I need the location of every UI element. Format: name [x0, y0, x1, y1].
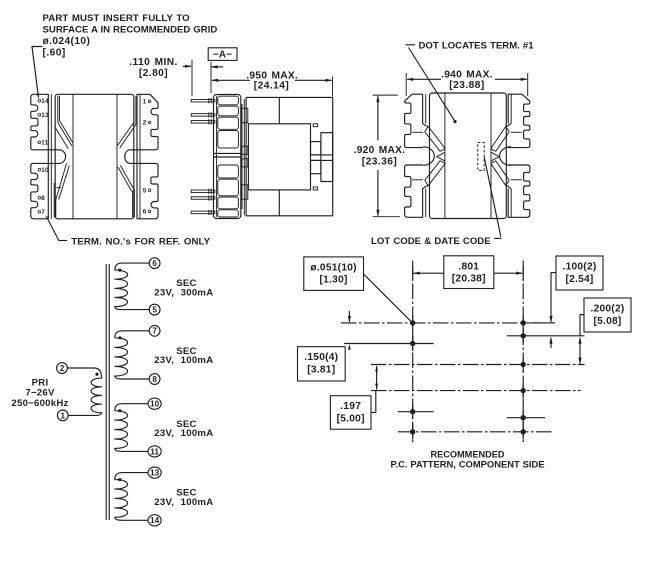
svg-text:2: 2 — [143, 120, 147, 127]
svg-text:.150(4): .150(4) — [304, 352, 338, 363]
svg-text:14: 14 — [150, 516, 160, 525]
svg-text:[20.38]: [20.38] — [452, 274, 486, 285]
svg-text:5: 5 — [152, 306, 157, 315]
svg-text:.940 MAX.: .940 MAX. — [441, 70, 493, 81]
svg-text:.801: .801 — [458, 261, 479, 272]
svg-text:250−600kHz: 250−600kHz — [11, 398, 68, 409]
svg-text:[5.00]: [5.00] — [337, 414, 365, 425]
svg-text:1: 1 — [61, 411, 66, 420]
svg-text:8: 8 — [152, 375, 157, 384]
svg-text:10: 10 — [150, 400, 160, 409]
svg-text:.197: .197 — [340, 401, 361, 412]
svg-text:23V, 100mA: 23V, 100mA — [154, 497, 213, 508]
svg-text:11: 11 — [41, 140, 48, 147]
svg-text:P.C. PATTERN, COMPONENT SIDE: P.C. PATTERN, COMPONENT SIDE — [390, 458, 544, 469]
svg-text:6: 6 — [152, 259, 157, 268]
svg-text:[2.54]: [2.54] — [565, 274, 593, 285]
svg-text:[.60]: [.60] — [43, 48, 66, 59]
svg-text:23V, 300mA: 23V, 300mA — [154, 288, 213, 299]
svg-text:8: 8 — [41, 195, 45, 202]
svg-text:DOT LOCATES TERM. #1: DOT LOCATES TERM. #1 — [419, 41, 535, 52]
svg-text:PART MUST INSERT FULLY TO: PART MUST INSERT FULLY TO — [43, 13, 191, 24]
svg-text:[2.80]: [2.80] — [139, 68, 168, 79]
svg-text:ø.024(10): ø.024(10) — [43, 36, 91, 47]
svg-text:.920 MAX.: .920 MAX. — [354, 145, 406, 156]
svg-text:LOT CODE & DATE CODE: LOT CODE & DATE CODE — [371, 236, 491, 247]
svg-text:11: 11 — [150, 447, 159, 456]
svg-text:[24.14]: [24.14] — [254, 80, 289, 91]
svg-text:10: 10 — [41, 167, 49, 174]
svg-text:13: 13 — [41, 112, 49, 119]
svg-text:[1.30]: [1.30] — [320, 275, 348, 286]
svg-text:14: 14 — [41, 98, 49, 105]
svg-text:.100(2): .100(2) — [562, 262, 596, 273]
svg-text:TERM. NO.'s FOR REF. ONLY: TERM. NO.'s FOR REF. ONLY — [71, 236, 210, 247]
svg-text:[23.36]: [23.36] — [362, 157, 397, 168]
svg-text:23V, 100mA: 23V, 100mA — [154, 355, 213, 366]
svg-text:SURFACE A IN RECOMMENDED GRID: SURFACE A IN RECOMMENDED GRID — [43, 24, 218, 35]
svg-text:[23.88]: [23.88] — [449, 80, 484, 91]
svg-text:[3.81]: [3.81] — [307, 365, 335, 376]
svg-text:7: 7 — [152, 327, 157, 336]
svg-text:7: 7 — [41, 209, 45, 216]
svg-text:1: 1 — [143, 99, 147, 106]
svg-text:5: 5 — [143, 187, 147, 194]
svg-text:6: 6 — [143, 209, 147, 216]
svg-text:ø.051(10): ø.051(10) — [310, 262, 356, 273]
svg-text:.200(2): .200(2) — [590, 304, 624, 315]
svg-text:−A−: −A− — [213, 50, 232, 61]
svg-text:13: 13 — [150, 469, 160, 478]
svg-text:23V, 100mA: 23V, 100mA — [154, 428, 213, 439]
svg-text:.110 MIN.: .110 MIN. — [129, 57, 177, 68]
svg-text:2: 2 — [60, 364, 65, 373]
svg-text:[5.08]: [5.08] — [593, 316, 621, 327]
